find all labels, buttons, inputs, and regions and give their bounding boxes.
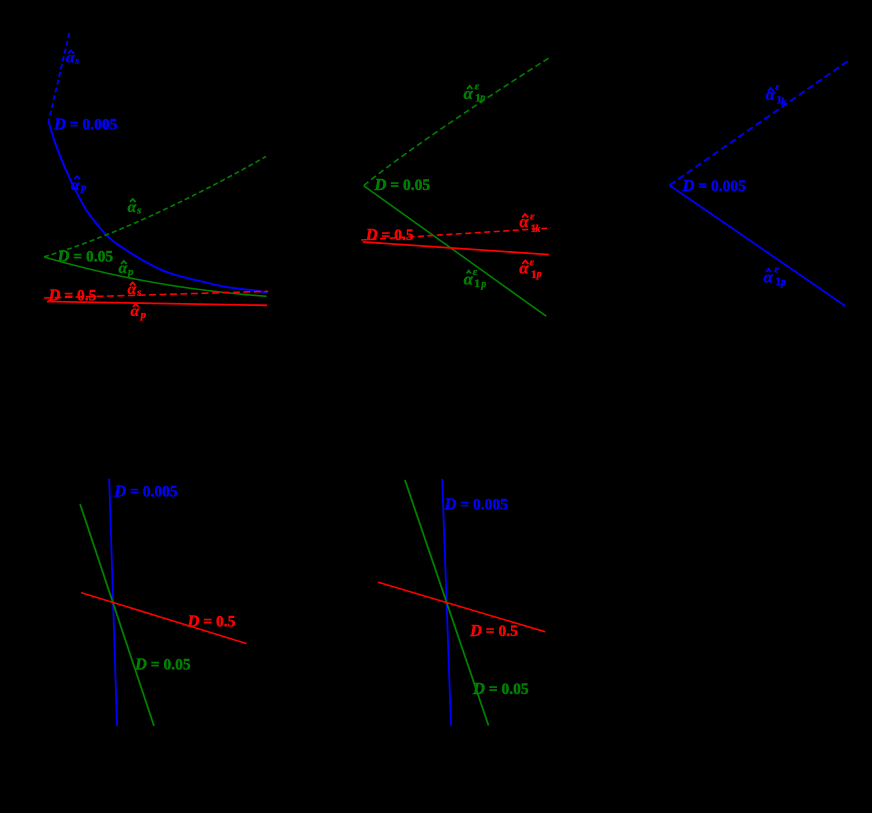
label alpha1k red dashed: [519, 210, 540, 235]
hat of alpha_s red: [130, 282, 136, 285]
label alpha_p blue: [71, 177, 87, 194]
svg-text:D = 0.005: D = 0.005: [682, 176, 747, 195]
curve alpha_s red dashed D=0.5: [44, 291, 268, 298]
line green D=0.05: [80, 504, 154, 726]
line red D=0.5: [81, 593, 247, 644]
svg-text:D = 0.05: D = 0.05: [374, 175, 431, 194]
hat of alpha1p green solid: [467, 271, 471, 274]
curve alpha1k green dashed D=0.05: [364, 57, 551, 186]
svg-text:p: p: [780, 277, 786, 288]
label alpha_s red dashed: [128, 281, 142, 299]
svg-text:D = 0.5: D = 0.5: [187, 612, 236, 631]
svg-text:D = 0.05: D = 0.05: [134, 655, 191, 674]
line green D=0.05: [405, 480, 489, 726]
svg-text:s: s: [74, 55, 79, 67]
hat of alpha1k blue dashed: [768, 88, 774, 92]
svg-text:p: p: [140, 309, 147, 321]
svg-text:D = 0.05: D = 0.05: [57, 247, 114, 266]
svg-text:D = 0.005: D = 0.005: [444, 495, 509, 514]
label alpha1p blue solid: [764, 264, 787, 289]
svg-text:p: p: [127, 266, 134, 278]
hat of alpha_s green: [130, 199, 136, 202]
label alpha1p green solid: [464, 266, 487, 290]
svg-text:ε: ε: [775, 81, 780, 93]
svg-text:p: p: [480, 279, 486, 290]
label alpha1p green dashed: [464, 81, 486, 105]
svg-text:s: s: [136, 205, 141, 217]
curve alpha1k red dashed D=0.5: [361, 228, 551, 240]
svg-text:α: α: [71, 177, 81, 194]
label alpha_s green dashed: [128, 199, 142, 217]
hat of alpha_p blue: [74, 176, 79, 179]
svg-text:p: p: [80, 182, 87, 194]
line blue D=0.005: [442, 479, 451, 726]
svg-text:1: 1: [474, 276, 480, 290]
hat of alpha1p green dashed: [467, 86, 472, 89]
curve alpha_p green solid D=0.05: [44, 257, 266, 296]
svg-text:D = 0.05: D = 0.05: [472, 679, 529, 698]
curve alpha1p green solid D=0.05: [364, 186, 546, 316]
hat of alpha1p red solid: [522, 261, 528, 265]
svg-text:D = 0.005: D = 0.005: [53, 115, 118, 134]
svg-text:p: p: [479, 93, 485, 104]
label alpha_p red solid: [131, 303, 147, 321]
hat of alpha_s blue: [68, 51, 74, 54]
label alpha1p red solid: [519, 256, 542, 281]
svg-text:p: p: [536, 269, 542, 280]
line red D=0.5: [378, 582, 545, 632]
curve alpha1p blue solid D=0.005: [670, 185, 846, 306]
curve alpha_s green dashed D=0.05: [44, 157, 266, 257]
curve alpha1p red solid D=0.5: [363, 242, 549, 255]
svg-text:k: k: [535, 224, 540, 235]
hat of alpha1p blue solid: [766, 269, 770, 272]
hat of alpha_p green: [121, 261, 127, 264]
svg-text:D = 0.5: D = 0.5: [48, 286, 97, 305]
label alpha_p green: [119, 260, 135, 278]
curve alpha_p blue solid D=0.005: [49, 122, 268, 293]
label alpha1k blue dashed: [766, 81, 787, 108]
hat of alpha1k red dashed: [522, 214, 528, 218]
curve alpha_s blue dashed D=0.005: [49, 33, 70, 122]
curve alpha_p red solid D=0.5: [47, 302, 267, 306]
line blue D=0.005: [109, 479, 117, 726]
svg-text:D = 0.5: D = 0.5: [469, 621, 518, 640]
svg-text:s: s: [136, 287, 141, 299]
svg-text:D = 0.005: D = 0.005: [113, 482, 178, 501]
hat of alpha_p red: [133, 304, 139, 307]
label alpha_s blue dashed: [66, 50, 79, 68]
svg-text:k: k: [781, 97, 786, 108]
svg-text:D = 0.5: D = 0.5: [365, 225, 414, 244]
curve alpha1k blue dashed D=0.005: [670, 60, 849, 185]
